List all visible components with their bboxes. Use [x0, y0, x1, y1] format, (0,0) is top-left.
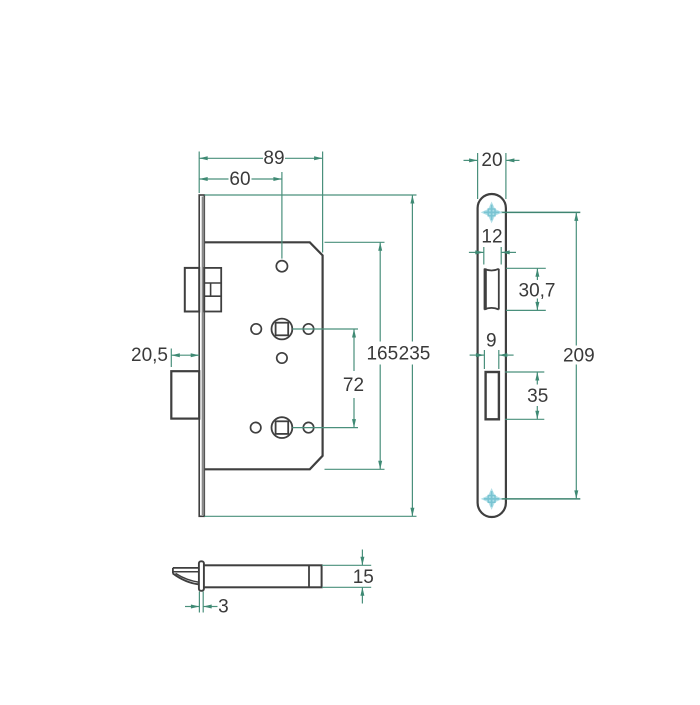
svg-text:9: 9 [486, 331, 497, 352]
svg-text:209: 209 [563, 345, 595, 366]
dimension 235 (faceplate height) [204, 195, 430, 516]
lower spindle hole (square follower) [272, 417, 293, 438]
dimension 9 (deadbolt cutout width) [470, 331, 514, 369]
svg-text:72: 72 [343, 375, 364, 396]
upper-left small hole [251, 324, 261, 334]
leader line from bottom screw centre [483, 498, 580, 500]
dimension 35 (deadbolt cutout height) [505, 372, 548, 419]
faceplate front view (stadium outline) [478, 194, 506, 517]
svg-text:12: 12 [481, 227, 502, 248]
upper-right small hole [303, 324, 313, 334]
centre small hole [277, 353, 287, 363]
dimension 12 (latch cutout width) [469, 227, 516, 265]
latch bolt inner guide [204, 268, 221, 312]
svg-text:15: 15 [353, 567, 374, 588]
svg-text:89: 89 [263, 148, 284, 169]
svg-text:20,5: 20,5 [131, 345, 168, 366]
top fixing hole [276, 261, 287, 272]
dimension 60 (backset) [199, 169, 282, 259]
top screw symbol [483, 203, 501, 221]
dimension 15 (latch bolt height) [322, 550, 374, 604]
svg-text:235: 235 [399, 344, 431, 365]
faceplate flange (bottom view cross-section) [199, 561, 204, 591]
latch cutout in faceplate [484, 269, 499, 310]
latch bolt head (outside faceplate) [185, 268, 199, 312]
deadbolt cutout in faceplate [486, 372, 499, 419]
upper spindle hole (square follower) [272, 319, 293, 340]
dimension 30,7 (latch cutout height) [506, 268, 555, 310]
dimension 20 (faceplate width) [464, 150, 520, 199]
deadbolt head [171, 371, 199, 418]
svg-text:3: 3 [218, 597, 229, 618]
bottom screw symbol [483, 490, 501, 508]
latch bolt bar (bottom view) [199, 565, 321, 587]
lock case outline [204, 242, 322, 469]
svg-text:20: 20 [481, 150, 502, 171]
dimension 3 (flange thickness) [185, 592, 229, 618]
svg-text:35: 35 [527, 386, 548, 407]
lower-right small hole [303, 422, 313, 432]
dimension 209 (screw centres distance) [563, 212, 595, 499]
dimension 89 (backset depth overall) [199, 148, 322, 253]
lower-left small hole [251, 422, 261, 432]
leader line from top screw centre [483, 211, 580, 213]
dimension 20,5 (deadbolt throw) [131, 345, 199, 367]
svg-text:165: 165 [366, 344, 398, 365]
svg-text:60: 60 [229, 169, 250, 190]
svg-text:30,7: 30,7 [519, 281, 556, 302]
dimension 72 (spindle centres distance) [292, 329, 364, 428]
latch bevel tip [173, 568, 199, 585]
faceplate (side view, lock body) [199, 195, 204, 516]
dimension 165 (case height) [325, 242, 399, 469]
